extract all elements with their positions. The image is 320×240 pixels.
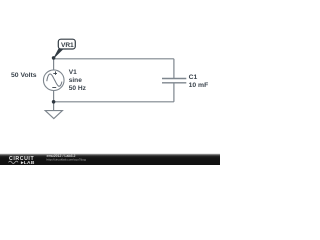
svg-text:C1: C1 bbox=[189, 74, 198, 81]
svg-text:sine: sine bbox=[69, 77, 83, 84]
svg-text:10 mF: 10 mF bbox=[189, 82, 209, 89]
svg-text:▸LAB: ▸LAB bbox=[20, 160, 35, 165]
svg-text:VR1: VR1 bbox=[61, 42, 74, 49]
svg-text:http://circuitlab.com/cyo7dog: http://circuitlab.com/cyo7dog bbox=[47, 158, 86, 162]
svg-text:V1: V1 bbox=[69, 69, 77, 76]
svg-text:50 Volts: 50 Volts bbox=[11, 72, 37, 79]
svg-text:50 Hz: 50 Hz bbox=[69, 85, 87, 92]
